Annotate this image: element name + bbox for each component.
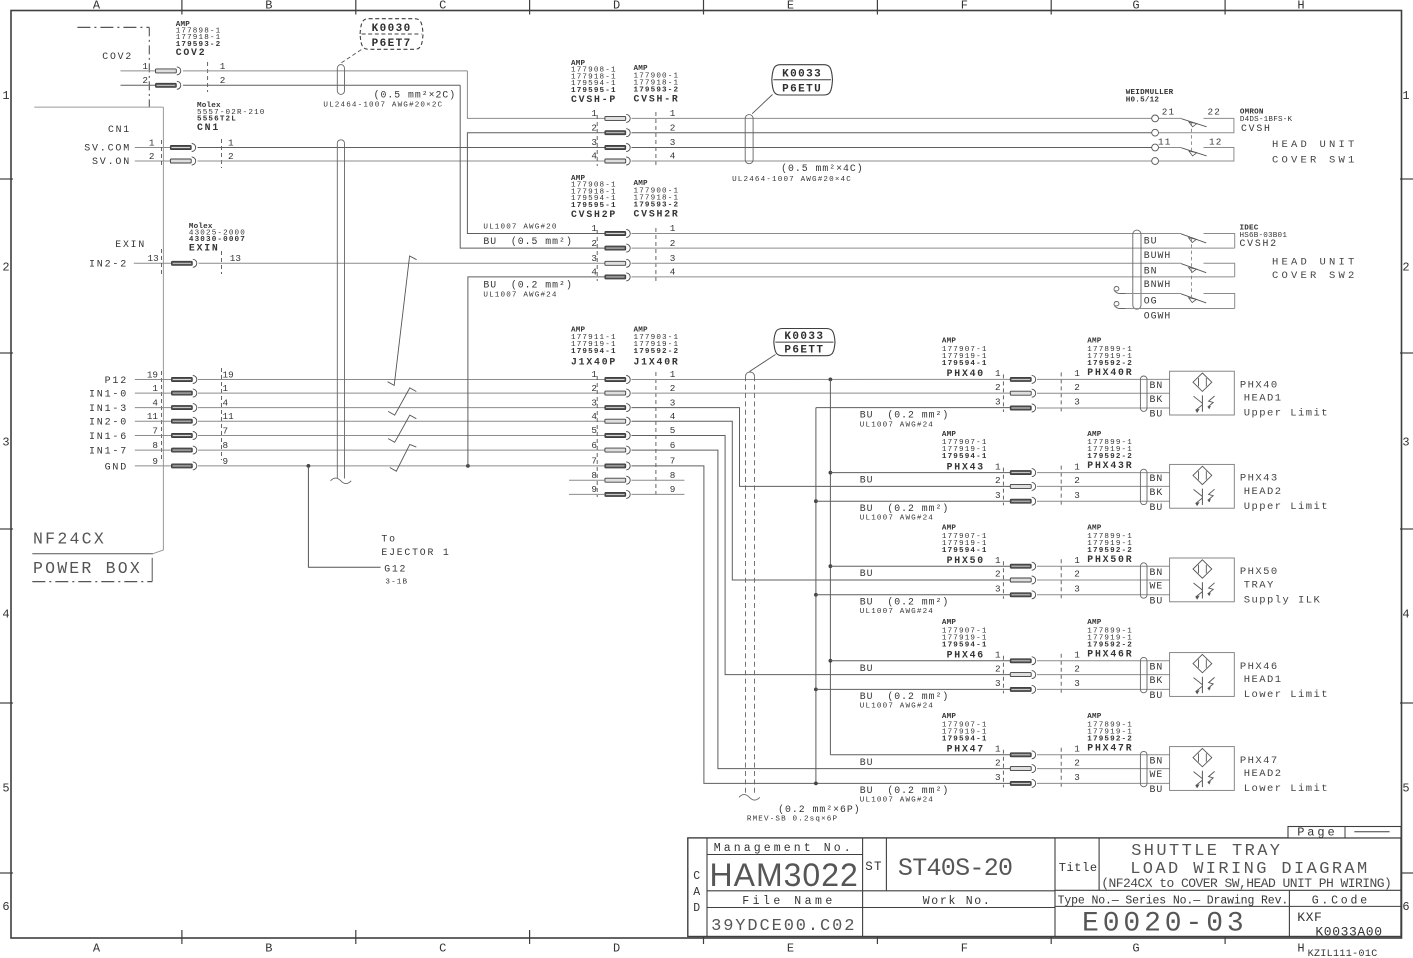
svg-text:P12: P12 xyxy=(105,376,128,387)
svg-text:PHX50R: PHX50R xyxy=(1087,554,1133,565)
svg-text:3: 3 xyxy=(1074,397,1080,408)
terminal J1X40-1 xyxy=(172,391,193,395)
svg-text:CVSH-P: CVSH-P xyxy=(571,94,617,105)
junction dot +V bus at PHX43 xyxy=(829,471,833,475)
svg-text:2: 2 xyxy=(995,663,1001,674)
wire IN2-0 to J1X40P pin 4 xyxy=(198,420,605,422)
svg-text:UL2464-1007 AWG#20×4C: UL2464-1007 AWG#20×4C xyxy=(732,176,852,184)
svg-text:BU: BU xyxy=(860,475,874,486)
terminal PHX47-3 xyxy=(1010,781,1031,785)
power box inner right edge xyxy=(162,107,164,550)
svg-text:P6ETU: P6ETU xyxy=(782,84,822,96)
terminal CVSH2-4 xyxy=(605,275,626,279)
wire IN2-2 to CVSH2P pin3 xyxy=(199,262,605,264)
power box dash-dot boundary right of COV2 xyxy=(148,27,150,107)
svg-text:2: 2 xyxy=(670,122,676,133)
svg-text:PHX40: PHX40 xyxy=(1240,379,1279,391)
svg-text:PHX43: PHX43 xyxy=(1240,473,1279,485)
wire stub J1X40P pin9 left xyxy=(569,493,605,495)
svg-text:AMP: AMP xyxy=(1087,525,1102,533)
svg-text:AMP: AMP xyxy=(942,525,957,533)
title block management cell divider xyxy=(862,838,864,937)
svg-text:BU (0.2 mm²): BU (0.2 mm²) xyxy=(860,503,949,514)
svg-text:D: D xyxy=(693,902,700,915)
svg-text:1: 1 xyxy=(149,138,155,149)
svg-text:3: 3 xyxy=(1074,490,1080,501)
svg-text:P6ET7: P6ET7 xyxy=(372,38,412,50)
svg-text:1: 1 xyxy=(152,383,158,394)
switch CVSH contact 21-22 blade xyxy=(1181,119,1206,127)
svg-text:(0.2 mm²×6P): (0.2 mm²×6P) xyxy=(778,804,861,815)
photo sensor PHX43 box xyxy=(1170,464,1235,508)
cable CVSH2 oval xyxy=(1133,230,1141,309)
svg-text:BUWH: BUWH xyxy=(1144,250,1172,261)
wire IN1-6 to J1X40P pin 5 xyxy=(198,435,605,437)
terminal circle row 2 xyxy=(1152,129,1159,136)
svg-text:5: 5 xyxy=(670,425,676,436)
svg-text:2: 2 xyxy=(149,151,155,162)
svg-text:AMP: AMP xyxy=(942,713,957,721)
svg-text:2: 2 xyxy=(1074,475,1080,486)
connector PHX50 mating line right (dashed) xyxy=(1060,559,1062,599)
terminal CVSH-1 xyxy=(605,116,626,120)
cable group slash IN2-2/P12 xyxy=(388,256,417,385)
svg-text:3: 3 xyxy=(1074,678,1080,689)
svg-text:PHX50: PHX50 xyxy=(1240,566,1279,578)
svg-text:7: 7 xyxy=(591,456,597,467)
svg-text:179592-2: 179592-2 xyxy=(634,348,680,356)
svg-text:Page: Page xyxy=(1297,826,1337,840)
wire IN1-0 left xyxy=(135,392,172,394)
wire IN1-7 to J1X40P pin 6 xyxy=(198,449,605,451)
wire PHX46 pin1 from +V bus xyxy=(830,660,1010,662)
svg-text:K0030: K0030 xyxy=(372,23,412,35)
POWER BOX right bracket xyxy=(151,558,153,582)
svg-text:3: 3 xyxy=(1402,436,1409,450)
cable group slash IN1-7/GND xyxy=(390,444,417,471)
connector CVSH2 mating line right (dashed) xyxy=(655,228,657,281)
svg-text:3: 3 xyxy=(591,253,597,264)
cable oval PHX50 xyxy=(1140,563,1147,598)
svg-text:13: 13 xyxy=(230,253,241,264)
wire PHX46 pin3 from 0V bus xyxy=(816,688,1010,690)
terminal J1X40-11 xyxy=(172,419,193,423)
svg-text:E: E xyxy=(787,942,794,956)
svg-text:BNWH: BNWH xyxy=(1144,279,1172,290)
terminal CVSH-2 xyxy=(605,131,626,135)
cable K0033 P6ETT trunk right line (dashed) xyxy=(754,376,756,794)
switch CVSH contact 11-12 wire stub xyxy=(1159,147,1182,149)
svg-text:PHX43R: PHX43R xyxy=(1087,460,1133,471)
switch CVSH2 contact 2 blade xyxy=(1181,264,1206,273)
wire PHX50R pin 1 to sensor xyxy=(1037,565,1170,567)
svg-text:8: 8 xyxy=(670,470,676,481)
svg-text:1: 1 xyxy=(995,461,1001,472)
svg-text:3: 3 xyxy=(995,584,1001,595)
svg-text:OG: OG xyxy=(1144,296,1158,307)
wire IN1-3 to J1X40P pin 3 xyxy=(198,407,605,409)
svg-text:1: 1 xyxy=(223,383,229,394)
svg-text:AMP: AMP xyxy=(1087,619,1102,627)
svg-text:1: 1 xyxy=(1402,89,1409,103)
svg-text:KZIL111-01C: KZIL111-01C xyxy=(1308,949,1378,958)
svg-text:4: 4 xyxy=(670,151,676,162)
terminal J1X40P-3 xyxy=(605,406,626,410)
terminal PHX46-2 xyxy=(1010,673,1031,677)
wire COV2-2 left xyxy=(121,84,156,86)
svg-text:2: 2 xyxy=(1074,569,1080,580)
svg-text:G12: G12 xyxy=(384,564,407,575)
wire IN1-3 left xyxy=(135,407,172,409)
terminal PHX50-1 xyxy=(1010,564,1031,568)
svg-text:1: 1 xyxy=(591,223,597,234)
cable marker K0030 leader xyxy=(341,50,361,63)
frame row ticks xyxy=(0,178,13,180)
svg-text:22: 22 xyxy=(1208,107,1222,118)
wire PHX47R pin 3 to sensor xyxy=(1037,782,1170,784)
svg-text:2: 2 xyxy=(995,569,1001,580)
svg-text:F: F xyxy=(961,942,968,956)
wire IN2-2 left xyxy=(134,262,172,264)
cable corridor cap xyxy=(337,140,344,143)
svg-text:6: 6 xyxy=(670,440,676,451)
title block management header underline xyxy=(707,854,863,856)
svg-text:AMP: AMP xyxy=(1087,431,1102,439)
switch CVSH blade link (dashed) xyxy=(1191,123,1193,153)
connector J1X40P mating line left (dashed) xyxy=(596,376,598,497)
svg-text:H: H xyxy=(1297,0,1304,13)
svg-text:3: 3 xyxy=(1074,584,1080,595)
wire PHX40R pin 1 to sensor xyxy=(1037,378,1170,380)
svg-text:D: D xyxy=(613,0,620,13)
connector CVSH mating line left (dashed) xyxy=(596,115,598,166)
terminal PHX40-3 xyxy=(1010,406,1031,410)
svg-text:UL1007 AWG#24: UL1007 AWG#24 xyxy=(860,797,934,805)
svg-text:COV2: COV2 xyxy=(102,51,133,62)
svg-text:179594-1: 179594-1 xyxy=(942,360,988,368)
wire PHX47R pin 2 to sensor xyxy=(1037,768,1170,770)
svg-text:AMP: AMP xyxy=(1087,338,1102,346)
connector J1X40P mating line right (dashed) xyxy=(655,372,657,497)
wire GND drop to ejector xyxy=(308,466,380,567)
terminal CVSH2-3 xyxy=(605,261,626,265)
svg-text:BN: BN xyxy=(1144,265,1158,276)
svg-text:BU: BU xyxy=(860,568,874,579)
connector CVSH mating line right (dashed) xyxy=(655,112,657,166)
svg-text:CN1: CN1 xyxy=(108,124,131,135)
svg-text:COVER SW2: COVER SW2 xyxy=(1272,270,1358,282)
svg-text:3: 3 xyxy=(670,137,676,148)
wire CVSH-R pin 2 to terminal block xyxy=(632,132,1152,134)
svg-text:3: 3 xyxy=(995,678,1001,689)
cable K0033 P6ETT trunk left line (dashed) xyxy=(745,376,747,794)
terminal PHX46-3 xyxy=(1010,687,1031,691)
svg-text:3: 3 xyxy=(2,436,9,450)
svg-text:UL1007 AWG#24: UL1007 AWG#24 xyxy=(860,703,934,711)
wire CVSH-R pin 1 to terminal block xyxy=(632,117,1152,119)
junction dot 0V bus at PHX47 xyxy=(814,782,818,786)
svg-text:2: 2 xyxy=(1402,261,1409,275)
svg-text:PHX47R: PHX47R xyxy=(1087,742,1133,753)
svg-text:NF24CX: NF24CX xyxy=(33,530,106,549)
connector CN1 mating line left (dashed) xyxy=(161,140,163,168)
svg-text:WE: WE xyxy=(1150,769,1164,780)
svg-text:Upper Limit: Upper Limit xyxy=(1244,408,1329,420)
svg-text:(0.5 mm²×2C): (0.5 mm²×2C) xyxy=(374,90,457,101)
svg-text:8: 8 xyxy=(152,440,158,451)
svg-text:BN: BN xyxy=(1150,661,1164,672)
svg-text:IN1-0: IN1-0 xyxy=(89,390,128,401)
wire PHX46R pin 3 to sensor xyxy=(1037,688,1170,690)
wire SV.ON to CVSH-P pin4 xyxy=(198,160,605,162)
title block mid horizontal xyxy=(707,890,1055,892)
wire PHX46R pin 2 to sensor xyxy=(1037,674,1170,676)
svg-text:2: 2 xyxy=(670,238,676,249)
0V bus vertical xyxy=(815,408,817,784)
power box inner top edge xyxy=(34,106,163,108)
svg-text:3: 3 xyxy=(591,397,597,408)
terminal CN1-2 xyxy=(170,159,191,163)
svg-text:PHX46: PHX46 xyxy=(947,650,985,661)
svg-text:11: 11 xyxy=(147,411,159,422)
svg-text:PHX50: PHX50 xyxy=(947,555,985,566)
connector PHX46 mating line right (dashed) xyxy=(1060,654,1062,694)
svg-text:2: 2 xyxy=(1074,382,1080,393)
svg-text:C: C xyxy=(439,942,446,956)
svg-text:UL1007 AWG#24: UL1007 AWG#24 xyxy=(860,608,934,616)
svg-text:OGWH: OGWH xyxy=(1144,311,1172,322)
page box xyxy=(1288,827,1401,838)
wire stub J1X40R pin8 right xyxy=(632,479,685,481)
svg-text:2: 2 xyxy=(591,238,597,249)
terminal CVSH-3 xyxy=(605,146,626,150)
svg-text:BN: BN xyxy=(1150,380,1164,391)
wire CVSH-R pin 4 to terminal block xyxy=(632,160,1152,162)
svg-text:8: 8 xyxy=(591,470,597,481)
junction dot +V bus at PHX50 xyxy=(829,564,833,568)
svg-text:9: 9 xyxy=(223,456,229,467)
terminal CVSH2-2 xyxy=(605,246,626,250)
wire J1X40R pin5 to PHX46 pin2 xyxy=(632,436,1011,675)
svg-text:E0020-03: E0020-03 xyxy=(1082,909,1248,940)
title block file/work row underline xyxy=(707,907,1055,909)
connector CVSH2 mating line left (dashed) xyxy=(596,230,598,281)
cable group slash IN2-0/IN1-6 xyxy=(388,415,416,442)
svg-text:BU (0.5 mm²): BU (0.5 mm²) xyxy=(483,236,572,247)
wire CVSH-R pin 3 to terminal block xyxy=(632,147,1152,149)
cable marker K0033 P6ETT leader xyxy=(750,355,776,372)
wire OG stub with curl xyxy=(1125,293,1181,295)
terminal J1X40P-4 xyxy=(605,419,626,423)
switch CVSH contact 21-22 wire stub xyxy=(1159,117,1182,119)
svg-text:GND: GND xyxy=(105,462,128,473)
svg-text:4: 4 xyxy=(2,608,9,622)
svg-text:Supply ILK: Supply ILK xyxy=(1244,594,1322,606)
wire SV.COM to CVSH-P pin3 xyxy=(198,147,605,149)
svg-text:5: 5 xyxy=(1402,782,1409,796)
terminal PHX40-1 xyxy=(1010,377,1031,381)
cable oval PHX43 xyxy=(1140,469,1147,504)
switch CVSH contact 22 fixed side xyxy=(1159,118,1234,132)
title block ST divider xyxy=(885,838,887,891)
junction dot 0V bus at PHX50 xyxy=(814,593,818,597)
svg-text:EXIN: EXIN xyxy=(115,239,146,250)
wire stub J1X40P pin8 left xyxy=(569,479,605,481)
svg-text:4: 4 xyxy=(223,398,229,409)
svg-text:7: 7 xyxy=(670,456,676,467)
terminal PHX43-1 xyxy=(1010,471,1031,475)
svg-text:BK: BK xyxy=(1150,487,1164,498)
wire GND left xyxy=(135,465,172,467)
connector PHX40 mating line right (dashed) xyxy=(1060,372,1062,412)
power box dash-dot boundary top xyxy=(77,26,149,28)
wire PHX43R pin 2 to sensor xyxy=(1037,485,1170,487)
svg-text:KXF: KXF xyxy=(1297,910,1322,925)
svg-text:BU: BU xyxy=(860,663,874,674)
svg-text:CVSH2P: CVSH2P xyxy=(571,209,617,220)
svg-text:2: 2 xyxy=(995,757,1001,768)
wire GND to J1X40P pin 7 xyxy=(198,465,605,467)
connector PHX47 mating line right (dashed) xyxy=(1060,748,1062,788)
svg-text:1: 1 xyxy=(591,108,597,119)
svg-text:EJECTOR 1: EJECTOR 1 xyxy=(381,547,450,558)
svg-text:1: 1 xyxy=(995,744,1001,755)
junction dot 0V bus at PHX46 xyxy=(814,688,818,692)
terminal PHX43-3 xyxy=(1010,499,1031,503)
svg-text:1: 1 xyxy=(591,369,597,380)
wire PHX50R pin 3 to sensor xyxy=(1037,594,1170,596)
wire stub J1X40R pin9 right xyxy=(632,493,685,495)
svg-text:1: 1 xyxy=(220,61,226,72)
switch CVSH contact 11-12 blade xyxy=(1181,148,1206,156)
svg-text:5: 5 xyxy=(591,425,597,436)
svg-text:J1X40R: J1X40R xyxy=(634,357,680,368)
terminal COV2-2 xyxy=(156,83,177,87)
svg-text:4: 4 xyxy=(152,398,158,409)
page number dash xyxy=(1354,831,1389,833)
svg-text:IN1-7: IN1-7 xyxy=(89,447,128,458)
svg-text:2: 2 xyxy=(142,75,148,86)
wire IN2-0 left xyxy=(135,420,172,422)
terminal PHX43-2 xyxy=(1010,484,1031,488)
wire J1X40R pin1 to PHX40 pin1 xyxy=(632,378,1011,380)
wire PHX40R pin 3 to sensor xyxy=(1037,407,1170,409)
svg-text:2: 2 xyxy=(228,151,234,162)
terminal circle row 1 xyxy=(1152,115,1159,122)
svg-text:(NF24CX to COVER SW,HEAD UNIT: (NF24CX to COVER SW,HEAD UNIT PH WIRING) xyxy=(1101,876,1391,891)
svg-text:3-1B: 3-1B xyxy=(385,579,408,587)
svg-text:IN1-6: IN1-6 xyxy=(89,432,128,443)
cable corridor right line xyxy=(344,143,346,478)
svg-text:AMP: AMP xyxy=(942,338,957,346)
svg-text:UL1007 AWG#24: UL1007 AWG#24 xyxy=(860,515,934,523)
switch CVSH contact 12 fixed side xyxy=(1159,148,1234,162)
svg-text:1: 1 xyxy=(1074,650,1080,661)
connector PHX46 mating line left (dashed) xyxy=(1002,656,1004,694)
svg-text:D: D xyxy=(613,942,620,956)
terminal PHX50-2 xyxy=(1010,578,1031,582)
svg-text:BU: BU xyxy=(1150,690,1164,701)
svg-text:39YDCE00.C02: 39YDCE00.C02 xyxy=(711,917,856,936)
svg-text:CVSH-R: CVSH-R xyxy=(634,93,680,104)
svg-text:CN1: CN1 xyxy=(197,122,220,133)
wire PHX50R pin 2 to sensor xyxy=(1037,579,1170,581)
svg-text:21: 21 xyxy=(1162,107,1176,118)
svg-text:BK: BK xyxy=(1150,675,1164,686)
connector CN1 mating line right (dashed) xyxy=(221,139,223,168)
connector PHX50 mating line left (dashed) xyxy=(1002,561,1004,599)
junction dot GND to CVSH2P pin4 vertical xyxy=(466,464,470,468)
svg-text:BU: BU xyxy=(860,757,874,768)
title block CAD divider xyxy=(706,838,708,937)
svg-text:3: 3 xyxy=(995,490,1001,501)
switch CVSH2 contact 1 fixed side xyxy=(1204,234,1235,249)
svg-text:4: 4 xyxy=(670,267,676,278)
connector COV2 mating line right (dashed) xyxy=(207,62,209,92)
svg-text:BU (0.2 mm²): BU (0.2 mm²) xyxy=(860,597,949,608)
terminal J1X40P-8 xyxy=(605,478,626,482)
connector PHX47 mating line left (dashed) xyxy=(1002,750,1004,788)
cable oval PHX40 xyxy=(1140,376,1147,411)
photo sensor PHX50 box xyxy=(1170,558,1235,602)
terminal J1X40P-2 xyxy=(605,391,626,395)
terminal CVSH2-1 xyxy=(605,232,626,236)
cable K0033 P6ETT trunk end wave xyxy=(739,795,760,801)
wire SV.COM left xyxy=(135,147,171,149)
svg-text:1: 1 xyxy=(1074,555,1080,566)
svg-text:IN1-3: IN1-3 xyxy=(89,404,128,415)
wire PHX43 pin1 from +V bus xyxy=(830,472,1010,474)
title block title cell divider xyxy=(1054,838,1056,937)
svg-text:COV2: COV2 xyxy=(176,47,207,58)
svg-text:WE: WE xyxy=(1150,581,1164,592)
cable marker K0033 P6ETU badge xyxy=(772,65,833,95)
svg-text:6: 6 xyxy=(1402,900,1409,914)
svg-text:K0033A00: K0033A00 xyxy=(1315,925,1382,940)
svg-text:2: 2 xyxy=(2,261,9,275)
svg-text:UL1007 AWG#24: UL1007 AWG#24 xyxy=(483,292,557,300)
cable oval PHX46 xyxy=(1140,657,1147,692)
svg-text:RMEV-SB 0.2sq×6P: RMEV-SB 0.2sq×6P xyxy=(747,816,838,824)
svg-text:2: 2 xyxy=(670,383,676,394)
cable marker K0033 P6ETT badge xyxy=(774,329,835,356)
svg-text:4: 4 xyxy=(591,151,597,162)
terminal J1X40-4 xyxy=(172,406,193,410)
svg-text:19: 19 xyxy=(147,370,158,381)
svg-text:19: 19 xyxy=(223,370,234,381)
wire J1X40R pin3 to PHX43 pin2 xyxy=(632,408,1011,487)
svg-text:BU (0.2 mm²): BU (0.2 mm²) xyxy=(860,785,949,796)
svg-text:PHX47: PHX47 xyxy=(947,744,985,755)
svg-text:5: 5 xyxy=(2,782,9,796)
svg-text:13: 13 xyxy=(148,253,159,264)
junction dot 0V bus at PHX43 xyxy=(814,499,818,503)
svg-text:BU: BU xyxy=(1150,502,1164,513)
wire PHX43 pin3 from 0V bus xyxy=(816,500,1010,502)
wire COV2-1 to vertical xyxy=(183,70,467,72)
svg-text:ST: ST xyxy=(865,860,883,874)
svg-text:C: C xyxy=(439,0,446,13)
svg-text:179594-1: 179594-1 xyxy=(571,348,617,356)
connector EXIN mating line right (dashed) xyxy=(221,251,223,274)
svg-text:TRAY: TRAY xyxy=(1244,579,1275,591)
photo sensor PHX46 box xyxy=(1170,653,1235,697)
svg-text:IN2-0: IN2-0 xyxy=(89,418,128,429)
wire PHX50 pin1 from +V bus xyxy=(830,565,1010,567)
svg-text:1: 1 xyxy=(995,650,1001,661)
svg-text:2: 2 xyxy=(1074,757,1080,768)
wire CVSH2P pin4 vertical to GND xyxy=(468,277,605,466)
